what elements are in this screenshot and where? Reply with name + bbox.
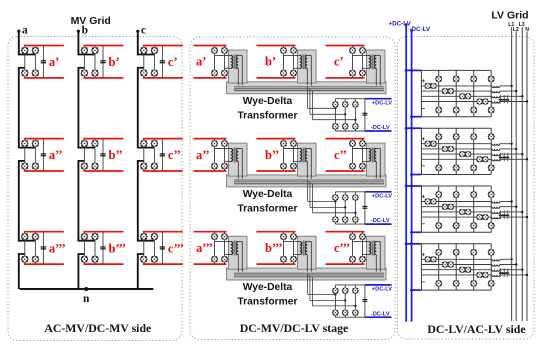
- svg-text:DC-MV/DC-LV stage: DC-MV/DC-LV stage: [240, 321, 348, 335]
- svg-text:-DC-LV: -DC-LV: [409, 26, 431, 33]
- svg-text:c’’: c’’: [334, 148, 347, 162]
- svg-text:Transformer: Transformer: [237, 203, 297, 214]
- svg-text:MV Grid: MV Grid: [71, 15, 111, 27]
- svg-text:−: −: [421, 163, 425, 170]
- svg-text:+: +: [421, 251, 425, 258]
- svg-text:Wye-Delta: Wye-Delta: [243, 189, 293, 200]
- svg-text:b’’’: b’’’: [265, 241, 283, 255]
- svg-text:c’’’: c’’’: [168, 241, 184, 255]
- svg-text:c’’’: c’’’: [334, 241, 350, 255]
- svg-text:a’’’: a’’’: [196, 241, 213, 255]
- svg-text:+DC-LV: +DC-LV: [388, 20, 411, 27]
- svg-text:Wye-Delta: Wye-Delta: [243, 282, 293, 293]
- svg-text:+DC-LV: +DC-LV: [372, 100, 392, 106]
- svg-text:−: −: [421, 105, 425, 112]
- svg-text:AC-MV/DC-MV side: AC-MV/DC-MV side: [44, 321, 151, 335]
- svg-text:a’’: a’’: [196, 148, 210, 162]
- svg-text:b: b: [82, 25, 88, 37]
- svg-text:+DC-LV: +DC-LV: [372, 193, 392, 199]
- svg-text:LV Grid: LV Grid: [491, 10, 528, 22]
- svg-text:n: n: [83, 293, 90, 305]
- svg-text:-DC-LV: -DC-LV: [371, 125, 390, 131]
- svg-text:c’’: c’’: [168, 148, 181, 162]
- svg-text:b’’’: b’’’: [109, 241, 127, 255]
- svg-text:Wye-Delta: Wye-Delta: [243, 96, 293, 107]
- svg-text:Transformer: Transformer: [237, 297, 297, 308]
- svg-text:b’’: b’’: [265, 148, 279, 162]
- svg-text:Transformer: Transformer: [237, 110, 297, 121]
- svg-text:+DC-LV: +DC-LV: [372, 287, 392, 293]
- svg-text:+: +: [421, 194, 425, 201]
- svg-text:-DC-LV: -DC-LV: [371, 218, 390, 224]
- svg-text:L3: L3: [519, 22, 525, 28]
- svg-text:a’’: a’’: [49, 148, 63, 162]
- svg-text:b’: b’: [265, 55, 276, 69]
- svg-text:−: −: [421, 279, 425, 286]
- svg-text:+: +: [421, 78, 425, 85]
- svg-text:c: c: [141, 25, 146, 37]
- svg-text:+: +: [421, 136, 425, 143]
- svg-text:DC-LV/AC-LV side: DC-LV/AC-LV side: [427, 322, 525, 336]
- svg-text:c’: c’: [334, 55, 344, 69]
- svg-text:a’: a’: [196, 55, 206, 69]
- svg-text:a’’’: a’’’: [49, 241, 66, 255]
- svg-text:-DC-LV: -DC-LV: [371, 311, 390, 317]
- svg-text:b’: b’: [109, 55, 120, 69]
- svg-text:c’: c’: [168, 55, 178, 69]
- svg-text:−: −: [421, 221, 425, 228]
- svg-text:a: a: [22, 25, 28, 37]
- svg-text:a’: a’: [49, 55, 59, 69]
- svg-text:b’’: b’’: [109, 148, 123, 162]
